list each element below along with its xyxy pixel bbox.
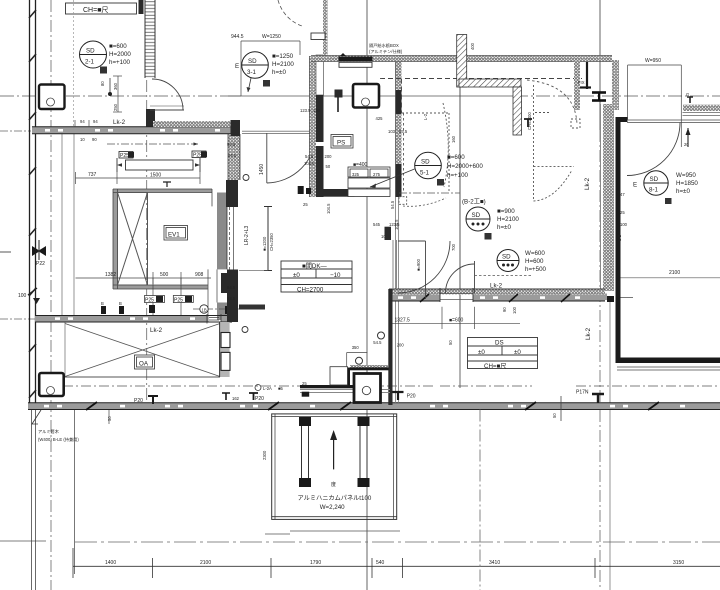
balcony up arrow (330, 430, 337, 488)
svg-text:1450: 1450 (259, 164, 265, 175)
dim riser x241 tick top (228, 95, 241, 97)
svg-text:SD: SD (421, 159, 430, 166)
P25 label right (192, 151, 207, 159)
svg-text:20: 20 (684, 142, 689, 147)
svg-text:25: 25 (302, 381, 307, 386)
svg-text:■=900: ■=900 (416, 258, 421, 271)
left main wall x29-36 (29, 0, 36, 590)
dim W=950 top right (628, 65, 682, 147)
svg-text:SD: SD (248, 58, 257, 65)
dim line y178 737 / 1500 (76, 172, 201, 184)
OA label (135, 355, 155, 369)
svg-text:10: 10 (80, 137, 85, 142)
svg-text:162: 162 (232, 396, 240, 401)
room table DK (281, 261, 352, 292)
symbol SD 2-1 circle (80, 41, 107, 68)
door A leaf+arc DK room (398, 241, 450, 299)
bottom dim line (73, 548, 720, 578)
svg-text:1327.5: 1327.5 (395, 318, 411, 324)
SD dots2 value labels (525, 250, 547, 273)
EV hoistway X-cross (118, 193, 148, 286)
svg-text:200: 200 (325, 154, 333, 159)
svg-text:H=2100: H=2100 (497, 216, 519, 223)
svg-text:H=600: H=600 (525, 258, 544, 265)
SD 2-1 value labels (109, 43, 131, 66)
svg-text:54.5: 54.5 (373, 340, 382, 345)
svg-text:275: 275 (373, 172, 381, 177)
svg-text:P25: P25 (193, 153, 202, 159)
svg-text:2300: 2300 (262, 450, 267, 460)
svg-text:Lk-2: Lk-2 (150, 327, 163, 334)
PS right wall x395-402 (396, 62, 402, 197)
shelf long rect (117, 158, 200, 172)
svg-text:250: 250 (113, 103, 118, 111)
middle bottom wall y289-301 (389, 288, 605, 302)
svg-text:H=2000+600: H=2000+600 (447, 163, 483, 170)
svg-text:度: 度 (331, 481, 336, 488)
svg-text:L-2A: L-2A (263, 386, 272, 391)
T symbol right on wall (592, 394, 604, 403)
svg-text:H=1850: H=1850 (676, 180, 698, 187)
tick under table (239, 270, 268, 272)
dim ticks near x110 y78-111 (100, 81, 118, 111)
texts near PS walls (300, 42, 475, 214)
grid centerline horizontal y=96 (0, 95, 720, 97)
svg-text:B: B (119, 301, 122, 306)
door leaf line x268 (sliding) (264, 207, 272, 271)
wall stub left of right room y293-302 (590, 294, 633, 303)
chain column right x612 y60-110 (612, 60, 619, 110)
svg-text:P20: P20 (134, 398, 143, 404)
svg-text:100: 100 (512, 306, 517, 314)
svg-text:908: 908 (195, 272, 204, 278)
svg-text:1790: 1790 (310, 560, 321, 566)
grid line vertical x=146.7 top (146, 0, 148, 188)
leader from SD3-1 down (248, 78, 251, 92)
svg-text:94.5: 94.5 (227, 296, 236, 301)
wall horizontal y315.5-322 left part (35, 314, 232, 324)
svg-text:h=+100: h=+100 (109, 59, 131, 66)
svg-text:8-1: 8-1 (649, 187, 659, 194)
dashdot y309 with circle (193, 308, 260, 310)
svg-text:Lk-2: Lk-2 (113, 119, 126, 126)
svg-text:325: 325 (352, 172, 360, 177)
G tick right (687, 97, 693, 103)
texts above wall y118-123 (80, 119, 98, 124)
svg-text:P25: P25 (120, 153, 129, 159)
chain band right end y104-111 (683, 105, 720, 111)
symbol SD 5-1 circle (415, 152, 442, 179)
grid line vertical x=367 (366, 0, 368, 590)
svg-text:100: 100 (620, 222, 628, 227)
svg-text:PS: PS (337, 140, 345, 147)
svg-text:CH=■尺: CH=■尺 (484, 363, 506, 370)
svg-text:OA: OA (139, 361, 149, 368)
svg-text:CH=■尺: CH=■尺 (83, 6, 108, 14)
dashdot leader y143 with arrow (107, 143, 198, 145)
svg-text:P22: P22 (36, 261, 45, 267)
PS label box (331, 135, 353, 149)
wall top-left vertical x144.5-155.5 ladder hatch (145, 0, 156, 128)
small marks near PS bottom left (298, 186, 311, 194)
top wall of right room y120-122 (627, 120, 720, 123)
svg-text:1500: 1500 (150, 173, 161, 179)
middle wall x225-240 upper (chain hatch) (226, 134, 240, 207)
svg-text:Lk-2: Lk-2 (585, 327, 592, 340)
balcony rail left (299, 417, 311, 487)
step wall at DK bottom (300, 365, 390, 393)
top-middle room upper wall y131-133 (242, 130, 310, 132)
svg-text:B: B (101, 301, 104, 306)
small texts near wall (373, 200, 517, 314)
svg-text:100: 100 (18, 293, 27, 299)
CH=2400 tick right (524, 112, 532, 130)
svg-text:104.5: 104.5 (304, 161, 315, 166)
EV1 label (164, 226, 188, 241)
svg-text:±0: ±0 (478, 349, 485, 356)
svg-text:アルミハニカムパネルt100: アルミハニカムパネルt100 (298, 495, 372, 502)
svg-text:■=600: ■=600 (447, 154, 465, 161)
svg-text:400: 400 (470, 42, 475, 50)
DS table (468, 338, 538, 369)
grid dashdot y=542 bottom (0, 540, 46, 542)
svg-text:SD: SD (650, 176, 659, 183)
svg-text:■=600: ■=600 (109, 43, 127, 50)
wall corner top right room (616, 117, 628, 122)
svg-text:94: 94 (93, 119, 98, 124)
circle ticks DK bottom (356, 357, 363, 364)
svg-text:アルミ箬木: アルミ箬木 (38, 428, 60, 435)
svg-text:h=+100: h=+100 (447, 172, 469, 179)
box marker small x311-325 y33-39 (311, 33, 325, 40)
thin verticals x62 x74 corridor (61, 133, 63, 316)
gray dbl line right y112-116 (683, 113, 720, 116)
svg-text:94.5: 94.5 (227, 142, 236, 147)
dotted room rect x402-449 y113-193 (402, 113, 449, 193)
svg-text:±0: ±0 (293, 272, 300, 279)
chain hatch above wall y121-127 x153-240 (153, 121, 240, 127)
dim line y278 500 908 (76, 272, 212, 315)
dashed horizontal y78 to right (405, 78, 582, 80)
symbol SD 3-1 circle (242, 52, 269, 79)
svg-text:360: 360 (113, 82, 118, 90)
dashed partition line from PS right wall (380, 79, 402, 114)
svg-text:h=+500: h=+500 (525, 266, 547, 273)
svg-text:2100: 2100 (200, 560, 211, 566)
svg-text:CH=2350: CH=2350 (269, 233, 274, 251)
grid tick y=252 left (0, 251, 11, 253)
B-2 SD circle with dots (466, 207, 490, 231)
svg-text:500: 500 (160, 272, 169, 278)
svg-text:50: 50 (552, 413, 557, 418)
SD 3-1 value labels (272, 53, 294, 76)
svg-text:545: 545 (373, 222, 381, 227)
svg-text:h=±0: h=±0 (497, 224, 511, 231)
right wall complex x599-620 (601, 104, 621, 363)
grid line vertical x=460 (459, 87, 461, 193)
svg-text:90: 90 (92, 137, 97, 142)
thick corner walls near x575-591 (580, 62, 591, 89)
svg-text:(B-2工■): (B-2工■) (462, 199, 486, 206)
door B leaf+arc (446, 261, 475, 293)
svg-text:CH=2700: CH=2700 (297, 287, 324, 294)
dashed line y275 right of door (475, 275, 534, 277)
G box bottom-left (39, 373, 64, 396)
B-2 SD value labels (497, 208, 519, 231)
texts along right wall (423, 113, 628, 241)
grid line vertical x=51 (50, 0, 52, 590)
svg-text:P20: P20 (255, 396, 264, 402)
svg-text:1B: 1B (202, 308, 207, 313)
svg-text:E: E (633, 182, 637, 189)
svg-text:W=950: W=950 (645, 58, 661, 64)
svg-text:■=1200: ■=1200 (262, 236, 267, 251)
svg-text:160: 160 (451, 135, 456, 143)
svg-text:SD: SD (86, 48, 95, 55)
hatched band vertical x513-521 y87-135 (513, 87, 522, 135)
svg-text:■=600: ■=600 (449, 318, 464, 324)
svg-text:104.5: 104.5 (394, 219, 399, 230)
svg-text:94.5: 94.5 (227, 285, 236, 290)
G box top middle (353, 84, 379, 108)
svg-text:50: 50 (326, 164, 331, 169)
risers on top wall 94/94 (74, 120, 76, 127)
svg-text:■=400: ■=400 (353, 162, 368, 168)
dashed arc top edge (278, 0, 302, 26)
svg-text:SD: SD (502, 254, 511, 261)
svg-text:200: 200 (397, 343, 405, 348)
leader from SD5-1 (370, 169, 415, 187)
94.5 texts middle (227, 142, 237, 301)
L-2A label (255, 385, 261, 391)
svg-text:103: 103 (388, 129, 396, 134)
svg-text:SD: SD (472, 212, 481, 219)
dotted door arc right of pier (527, 80, 577, 124)
svg-text:54.5: 54.5 (305, 154, 314, 159)
B marks on wall y306-316 (101, 305, 231, 314)
OA cross area (65, 324, 220, 378)
svg-text:54.5: 54.5 (390, 200, 395, 209)
svg-text:EV1: EV1 (168, 232, 180, 239)
dotted partition right room x533 (534, 85, 581, 201)
svg-text:(W400) B-LE (持兼用): (W400) B-LE (持兼用) (38, 436, 79, 443)
svg-text:5-1: 5-1 (420, 170, 430, 177)
svg-text:425: 425 (376, 116, 384, 121)
svg-text:LR-2+L3: LR-2+L3 (244, 225, 250, 245)
SD 5-1 value labels (447, 154, 483, 179)
middle wall x225-237 lower black (227, 270, 238, 323)
top middle chain band y55.5-61.5 (311, 53, 612, 62)
EV room walls (113, 189, 217, 322)
balcony rail right (358, 417, 370, 487)
svg-text:G: G (686, 92, 689, 97)
door arc top right room (627, 123, 680, 176)
column piece right of OA x220-230 (220, 322, 230, 377)
svg-text:94: 94 (80, 119, 85, 124)
G box DK bottom (354, 374, 381, 403)
small black boxes inside PS (335, 90, 343, 98)
svg-text:−10: −10 (330, 272, 341, 279)
thin double vertical below PS right wall to bottom wall (396, 197, 399, 403)
P22 symbol on left wall (32, 240, 46, 267)
top label box CH= (66, 3, 137, 14)
black bar top near ladder wall (139, 0, 144, 14)
svg-text:94.5: 94.5 (228, 153, 237, 158)
svg-text:25: 25 (620, 210, 625, 215)
svg-text:H=2000: H=2000 (109, 51, 131, 58)
H column symbol x592-606 y91-102 (592, 93, 606, 101)
svg-text:3410: 3410 (489, 560, 500, 566)
svg-text:700: 700 (451, 243, 456, 251)
svg-text:540: 540 (376, 560, 385, 566)
bottom dim texts (105, 560, 684, 566)
main bottom wall y403-409.5 (28, 402, 720, 410)
dotted small box x399-407 y197-204 (399, 197, 407, 205)
balcony lower ext lines (265, 531, 400, 534)
dotted vertical hatch x573-587 (574, 60, 580, 110)
svg-text:CH=2400: CH=2400 (527, 112, 532, 130)
balcony outline (272, 414, 397, 520)
svg-text:H=2100: H=2100 (272, 61, 294, 68)
symbol G box top-left (39, 85, 65, 110)
svg-text:E: E (235, 63, 239, 70)
svg-text:1400: 1400 (105, 560, 116, 566)
svg-text:737: 737 (88, 172, 97, 178)
svg-text:2100: 2100 (669, 270, 680, 276)
dim 1327.5 / W=600 (390, 307, 520, 329)
svg-text:Lk-2: Lk-2 (490, 283, 503, 290)
svg-text:25: 25 (303, 202, 308, 207)
DK right wall x384-397 (385, 227, 397, 405)
black corner cap wall end x230-240 (231, 120, 241, 136)
svg-text:■=900: ■=900 (497, 208, 515, 215)
P20 T symbol left on wall (134, 396, 158, 404)
svg-text:3150: 3150 (673, 560, 684, 566)
svg-text:h=±0: h=±0 (676, 188, 690, 195)
PS left wall x309-324 (310, 0, 328, 197)
svg-text:350: 350 (352, 345, 360, 350)
svg-text:104.5: 104.5 (326, 203, 331, 214)
P25 label left (119, 152, 134, 160)
door arc upper middle room (267, 133, 316, 183)
svg-text:■間DK—: ■間DK— (302, 263, 328, 270)
SD circle dots 2 (497, 250, 519, 272)
svg-text:W=950: W=950 (676, 172, 696, 179)
svg-text:Lk-2: Lk-2 (584, 177, 591, 190)
dotted vertical x73.5 top (73, 0, 75, 133)
dashdot vertical x480 bottom (479, 410, 481, 590)
arrow symbol 20 (684, 128, 691, 147)
PS bottom wall (317, 189, 355, 197)
dotted arc below (403, 198, 446, 206)
svg-text:L-2: L-2 (617, 234, 622, 241)
svg-text:80: 80 (100, 81, 105, 86)
dashdot y193 (399, 192, 460, 194)
EV right dark wall band (217, 193, 227, 270)
svg-text:90: 90 (502, 307, 507, 312)
svg-text:P25: P25 (145, 298, 154, 304)
door opening jamb x231 y207-270 (230, 207, 234, 270)
svg-text:±0: ±0 (514, 349, 521, 356)
svg-text:100: 100 (313, 108, 321, 113)
svg-text:P25: P25 (174, 298, 183, 304)
svg-text:50: 50 (448, 340, 453, 345)
svg-text:P17N: P17N (576, 390, 589, 396)
svg-text:P20: P20 (407, 394, 416, 400)
svg-text:L-2: L-2 (423, 113, 428, 120)
grid dashdot y=319 left (0, 318, 35, 320)
svg-text:h=±0: h=±0 (272, 69, 286, 76)
SD 8-1 value labels (676, 172, 698, 195)
svg-text:(アルミテン/仕様): (アルミテン/仕様) (369, 48, 403, 55)
svg-text:FIX: FIX (578, 80, 585, 85)
grid tick y=131 left (0, 130, 31, 132)
svg-text:47: 47 (620, 192, 625, 197)
svg-text:W=600: W=600 (525, 250, 545, 257)
grid line vertical x=600 (599, 0, 601, 130)
right room bottom wall thick (617, 358, 720, 364)
svg-text:W=1250: W=1250 (262, 34, 281, 40)
svg-text:隔戸給水栃BOX: 隔戸給水栃BOX (369, 42, 399, 49)
svg-text:DS: DS (495, 340, 504, 347)
water supply BOX text (369, 42, 403, 55)
svg-text:944.5: 944.5 (231, 34, 244, 40)
svg-text:■5: ■5 (278, 386, 284, 391)
symbol SD 8-1 circle (644, 171, 668, 195)
svg-text:123.5: 123.5 (300, 108, 311, 113)
dim 944.5 W=1250 top (231, 34, 300, 96)
T P20 right of G box (393, 392, 404, 400)
grid dashdot y=386 (63, 385, 433, 387)
door top-left room arc (150, 79, 184, 110)
svg-text:2-1: 2-1 (85, 59, 95, 66)
aluminum cap leader + text (32, 410, 79, 443)
hatched band horizontal x459-521 y79-87 (459, 79, 521, 87)
dotted door swing arc (443, 103, 448, 187)
svg-text:1382: 1382 (105, 272, 116, 278)
circle tick on wall (243, 175, 249, 181)
cabinet W=600 325/275 rows (348, 167, 390, 197)
svg-text:W=2,240: W=2,240 (320, 504, 345, 511)
P25 blobs lower (145, 296, 194, 304)
rect under black band (339, 62, 372, 67)
wall horizontal y127-133.5 upper-left (32, 127, 240, 134)
T tick below dim (163, 182, 171, 187)
svg-text:■=1250: ■=1250 (272, 53, 294, 60)
hatched pier x456-467 y34-87 (457, 35, 467, 88)
svg-text:50: 50 (107, 416, 112, 421)
svg-text:3-1: 3-1 (247, 69, 257, 76)
